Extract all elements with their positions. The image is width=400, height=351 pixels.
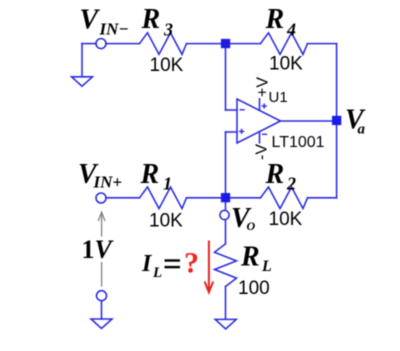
op-amp V- supply pin (259, 132, 261, 143)
port terminal V_IN- (96, 39, 106, 49)
junction node Va (332, 116, 341, 125)
ground (under source) (91, 319, 112, 329)
svg-text:10K: 10K (149, 211, 183, 232)
resistor R3 (140, 33, 187, 55)
label R3 (141, 4, 174, 40)
svg-text:?: ? (184, 247, 199, 280)
svg-text:O: O (247, 219, 256, 233)
junction node (top, R3/R4) (221, 39, 230, 48)
svg-text:R: R (265, 4, 285, 35)
wire source terminal to ground (101, 301, 103, 319)
op-amp U1 triangle (237, 99, 281, 143)
label Va (345, 104, 366, 137)
op-amp non-inverting input mark (239, 129, 244, 134)
svg-text:1: 1 (163, 174, 172, 194)
label Vo (231, 203, 256, 234)
wire R2 to right vertical (308, 197, 337, 199)
source terminal circle (97, 291, 107, 301)
voltage source annotation arrow (gray) (98, 212, 105, 236)
wire V_IN+ terminal to R1 (106, 197, 140, 199)
svg-text:4: 4 (286, 20, 296, 40)
op-amp V+ supply pin (259, 99, 261, 111)
wire Vo terminal to RL (225, 220, 227, 244)
resistor R1 (140, 187, 187, 209)
op-amp V- supply mark (blue minus) (262, 133, 267, 135)
label V_IN- (80, 5, 129, 39)
svg-text:IN+: IN+ (93, 173, 123, 192)
svg-text:10K: 10K (269, 209, 303, 230)
wire from V_IN- terminal to left corner (82, 43, 96, 45)
svg-text:R: R (265, 159, 285, 190)
svg-text:R: R (141, 4, 161, 35)
resistor RL (215, 244, 237, 287)
svg-text:-V: -V (254, 144, 271, 160)
op-amp inverting input mark (240, 109, 245, 111)
wire R4 to right corner (308, 43, 337, 45)
svg-text:R: R (140, 159, 160, 190)
label IL = ? (141, 247, 199, 282)
current arrow IL (red) (205, 241, 214, 293)
svg-text:a: a (358, 122, 366, 138)
wire R3 to R4 through node (187, 43, 261, 45)
svg-text:LT1001: LT1001 (272, 134, 325, 151)
svg-text:IN−: IN− (99, 20, 129, 39)
resistor R4 (261, 33, 308, 55)
wire stub to non-inverting input (226, 131, 238, 133)
wire non-inverting input down to bottom node (225, 132, 227, 210)
svg-text:U1: U1 (269, 89, 288, 106)
svg-text:10K: 10K (269, 54, 303, 75)
wire down to ground (left) (81, 44, 83, 77)
svg-text:100: 100 (238, 278, 270, 299)
junction node (bottom, Vo) (221, 193, 230, 202)
wire V_IN- terminal to R3 (106, 43, 140, 45)
svg-text:3: 3 (163, 20, 173, 40)
wire R1 to R2 through node (187, 197, 261, 199)
label RL (240, 242, 272, 276)
label R2 (265, 159, 297, 194)
svg-text:1V: 1V (82, 235, 115, 264)
ground (top-left) (72, 77, 93, 86)
svg-text:L: L (152, 265, 162, 281)
label V_IN+ (78, 159, 122, 192)
svg-text:2: 2 (286, 174, 296, 194)
op-amp V+ supply mark (blue plus) (262, 103, 267, 108)
op-amp output wire (281, 120, 333, 122)
wire right vertical (feedback) (336, 44, 338, 198)
wire stub to inverting input (226, 109, 238, 111)
wire RL to ground (225, 287, 227, 320)
wire node down to inverting input (225, 48, 227, 110)
svg-text:I: I (141, 251, 153, 277)
port terminal Vo (220, 210, 229, 219)
svg-text:10K: 10K (150, 55, 184, 76)
voltage source annotation line (gray) (101, 262, 103, 287)
port terminal V_IN+ (96, 193, 106, 203)
svg-text:L: L (261, 258, 272, 275)
svg-text:V: V (80, 5, 101, 36)
svg-text:R: R (240, 242, 260, 273)
ground (under RL) (215, 319, 236, 329)
label R4 (265, 4, 297, 40)
resistor R2 (261, 187, 308, 209)
label R1 (140, 159, 173, 194)
